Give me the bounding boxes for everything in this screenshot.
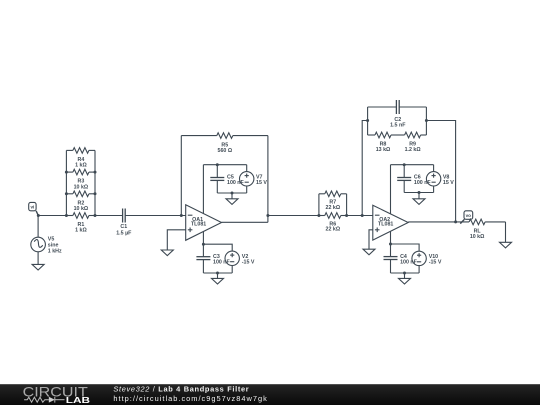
feedback 2 right link down <box>426 121 455 222</box>
dot C6 top <box>403 163 406 166</box>
junction dots ladder <box>37 171 97 217</box>
ground stub V2 group <box>217 273 219 278</box>
wire OA2 plus input to ground <box>369 230 373 249</box>
svg-text:100 nF: 100 nF <box>227 180 245 186</box>
feedback 2 box right rail <box>425 107 427 135</box>
label V8 15 V <box>443 174 454 185</box>
wire vi to ladder <box>38 215 66 217</box>
ground for V8 group <box>413 199 425 205</box>
label C3 100 nF <box>213 254 231 265</box>
label R8 13 kOhm <box>376 142 391 153</box>
svg-text:1 kHz: 1 kHz <box>48 249 62 255</box>
svg-text:10 kΩ: 10 kΩ <box>74 206 89 212</box>
wire between R8 R9 <box>391 134 405 136</box>
resistor R5 <box>217 133 233 139</box>
svg-text:vo: vo <box>466 213 472 218</box>
capacitor C1 <box>123 209 126 223</box>
node dot inverting OA1 <box>180 214 183 217</box>
OA2 output wire <box>408 221 469 223</box>
label R6 22 kOhm <box>326 221 341 232</box>
OA1 V- pin <box>202 231 204 244</box>
ground stub V8 group <box>418 193 420 199</box>
svg-text:15 V: 15 V <box>256 180 267 186</box>
svg-text:Steve322 / Lab 4 Bandpass Filt: Steve322 / Lab 4 Bandpass Filter <box>113 385 249 394</box>
label C5 100 nF <box>227 174 245 185</box>
feedback 2 box left rail <box>367 107 369 135</box>
wire ladder to C1 <box>95 215 122 217</box>
op-amp OA2 <box>373 205 408 240</box>
svg-text:1.2 kΩ: 1.2 kΩ <box>405 147 422 153</box>
resistor R9 <box>405 132 427 138</box>
ground for OA1 plus <box>161 250 173 256</box>
svg-text:1.5 µF: 1.5 µF <box>116 231 132 237</box>
feedback top wire left <box>181 135 217 137</box>
svg-text:22 kΩ: 22 kΩ <box>326 227 341 233</box>
ground for V5 <box>32 264 44 270</box>
dot V8 ground <box>418 191 421 194</box>
footer bar <box>0 384 540 405</box>
svg-text:LAB: LAB <box>66 395 90 405</box>
resistor RL <box>469 219 505 225</box>
OA2 V+ bottom rail <box>404 192 433 194</box>
capacitor C2 <box>368 100 427 114</box>
label C6 100 nF <box>414 174 432 185</box>
dot V2 ground <box>216 272 219 275</box>
capacitor C4 <box>384 244 398 273</box>
svg-text:1.5 nF: 1.5 nF <box>390 123 406 129</box>
resistor R2 <box>66 191 95 197</box>
svg-text:560 Ω: 560 Ω <box>218 148 233 154</box>
feedback rail right (down to output) <box>267 136 269 223</box>
wire RL down to ground <box>505 222 507 242</box>
voltage source V8 <box>426 165 440 193</box>
label R3 10 kOhm <box>74 179 89 191</box>
dot V7 ground <box>231 192 234 195</box>
node vi <box>29 202 39 215</box>
feedback rail left (up from inverting node) <box>180 136 182 216</box>
label R9 1.2 kOhm <box>405 142 422 153</box>
dot feedback box left <box>366 119 369 122</box>
label R4 1 kOhm <box>75 157 87 169</box>
ground stub V7 group <box>231 193 233 199</box>
capacitor C3 <box>196 244 210 273</box>
dot OA2 inverting node <box>361 214 364 217</box>
label R2 10 kOhm <box>74 200 89 212</box>
resistor R4 <box>66 148 95 154</box>
V+ group bottom rail <box>217 192 246 194</box>
svg-text:-15 V: -15 V <box>429 259 442 265</box>
resistor R6 <box>319 213 347 219</box>
label C2 1.5 nF <box>390 117 406 129</box>
label RL 10 kOhm <box>470 229 485 240</box>
resistor R1 <box>66 213 95 219</box>
dots R6 ladder <box>317 214 348 217</box>
label V2 -15 V <box>242 254 255 265</box>
OA1 V+ pin <box>202 165 204 214</box>
svg-text:C1: C1 <box>120 224 127 230</box>
wire vi down to V5 <box>37 216 39 238</box>
OA2 V- pin <box>390 231 392 244</box>
OA2 V+ pin <box>390 165 392 214</box>
resistor R8 <box>368 132 391 138</box>
svg-text:http://circuitlab.com/c9g57vz8: http://circuitlab.com/c9g57vz84w7gk <box>113 394 267 403</box>
label V5 sine 1 kHz <box>48 237 62 255</box>
wire C1 to OA1 inverting node <box>125 215 185 217</box>
wire ladder to OA2 <box>347 215 373 217</box>
resistor R7 <box>319 191 347 197</box>
svg-text:-15 V: -15 V <box>242 259 255 265</box>
label C1 1.5 uF <box>116 224 132 237</box>
OA2 V- bottom rail <box>391 272 420 274</box>
capacitor C5 <box>210 165 224 193</box>
R6 R7 ladder rails <box>318 194 320 216</box>
wire output bus to R6 ladder <box>268 215 319 217</box>
OA2 V+ rail top <box>391 164 434 166</box>
svg-text:1 kΩ: 1 kΩ <box>75 228 87 234</box>
ground for V2 group <box>212 278 224 284</box>
dot OA2 V- <box>389 243 392 246</box>
svg-text:10 kΩ: 10 kΩ <box>470 234 485 240</box>
svg-text:10 kΩ: 10 kΩ <box>74 184 89 190</box>
label V7 15 V <box>256 174 267 185</box>
label V10 -15 V <box>429 254 442 265</box>
svg-text:vi: vi <box>30 205 34 210</box>
dot feedback box right <box>425 119 428 122</box>
label R1 1 kOhm <box>75 222 87 234</box>
ground for RL <box>500 242 512 248</box>
node vo <box>460 211 472 224</box>
V- group bottom rail <box>203 272 232 274</box>
svg-text:TL081: TL081 <box>378 222 393 228</box>
ground for V10 group <box>399 278 411 284</box>
label R5 560 Ohm <box>218 142 233 154</box>
svg-text:100 nF: 100 nF <box>414 180 432 186</box>
dot V10 ground <box>403 272 406 275</box>
label OA1 TL081 <box>191 217 206 227</box>
capacitor C6 <box>397 165 411 193</box>
voltage source V10 <box>412 251 426 273</box>
ground for OA2 plus <box>363 249 375 255</box>
feedback 2 rail up <box>362 121 367 216</box>
label R7 22 kOhm <box>326 200 341 211</box>
OA2 V- rail to V10 <box>391 244 420 251</box>
label OA2 TL081 <box>378 217 393 227</box>
dot C5 top <box>216 163 219 166</box>
ground stub V10 group <box>404 273 406 278</box>
voltage source V2 <box>225 251 239 273</box>
OA1 output wire <box>222 221 268 223</box>
svg-text:1 kΩ: 1 kΩ <box>75 163 87 169</box>
voltage source V5 <box>31 237 46 252</box>
svg-text:TL081: TL081 <box>191 222 206 228</box>
ladder left rail <box>65 150 67 215</box>
voltage source V7 <box>240 165 254 193</box>
dot output 2 junction <box>454 220 457 223</box>
wire OA1 plus input to ground <box>167 230 185 250</box>
dot output junction <box>266 214 269 217</box>
label C4 100 nF <box>400 254 418 265</box>
V- rail to V2 <box>203 244 232 251</box>
svg-text:15 V: 15 V <box>443 180 454 186</box>
logo resistor-diode squiggle <box>24 397 64 403</box>
resistor R3 <box>66 169 95 175</box>
V+ rail top <box>203 164 246 166</box>
feedback top wire right <box>233 135 268 137</box>
ladder right rail <box>94 150 96 215</box>
svg-text:13 kΩ: 13 kΩ <box>376 147 391 153</box>
svg-text:22 kΩ: 22 kΩ <box>326 205 341 211</box>
op-amp OA1 <box>186 205 222 241</box>
ground for V7 group <box>226 199 238 205</box>
wire V5 to ground <box>37 252 39 264</box>
dot OA1 V- <box>202 243 205 246</box>
